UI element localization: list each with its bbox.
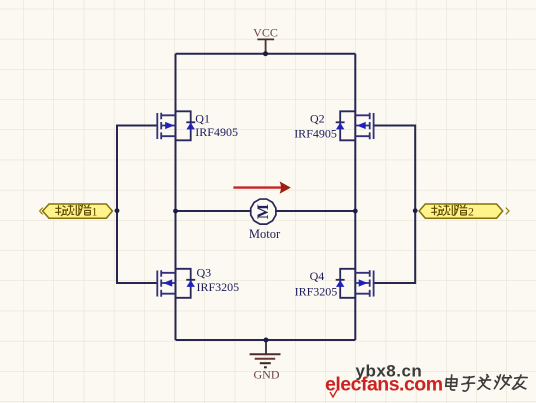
- svg-text:1: 1: [92, 204, 98, 218]
- svg-text:M: M: [255, 204, 272, 219]
- junction right port node: [413, 208, 418, 213]
- junction right motor node: [353, 209, 358, 214]
- watermark tick mark: [330, 390, 337, 397]
- current direction arrow: [233, 181, 290, 193]
- svg-text:2: 2: [468, 204, 474, 218]
- wire right gate net: [374, 126, 416, 284]
- svg-text:IRF4905: IRF4905: [195, 125, 238, 139]
- svg-text:IRF3205: IRF3205: [197, 280, 240, 294]
- svg-text:Q1: Q1: [195, 112, 210, 126]
- transistor Q2 P-MOSFET (mirrored): [336, 111, 374, 140]
- svg-text:Q4: Q4: [310, 269, 325, 283]
- svg-text:Q3: Q3: [197, 266, 212, 280]
- svg-text:Motor: Motor: [249, 227, 281, 241]
- svg-text:VCC: VCC: [253, 25, 278, 39]
- svg-text:elecfans.com: elecfans.com: [325, 374, 443, 396]
- watermark dian-zi-fa-shao-you (drawn strokes): [445, 375, 527, 392]
- wire left gate net: [117, 126, 158, 284]
- wire top rail VCC net: [176, 53, 356, 55]
- motor M: [251, 199, 276, 224]
- transistor Q4 N-MOSFET (mirrored): [336, 269, 374, 298]
- junction GND node: [264, 338, 269, 343]
- svg-text:IRF4905: IRF4905: [294, 127, 337, 141]
- junction VCC node: [263, 51, 268, 56]
- power port VCC: [253, 25, 278, 53]
- wire bottom rail GND net: [176, 339, 356, 341]
- svg-text:GND: GND: [254, 368, 280, 382]
- wire right branch (Q2 drain-source vertical): [354, 54, 356, 340]
- port control-1 (left, kong-zhi-duan-1): [40, 204, 113, 218]
- port control-2 (right, kong-zhi-duan-2): [419, 204, 509, 218]
- ground: [250, 340, 281, 382]
- wire middle rail motor net: [176, 210, 356, 212]
- svg-text:IRF3205: IRF3205: [295, 285, 338, 299]
- junction left motor node: [173, 209, 178, 214]
- svg-text:Q2: Q2: [310, 112, 325, 126]
- transistor Q3 N-MOSFET: [157, 269, 195, 298]
- transistor Q1 P-MOSFET: [157, 111, 195, 140]
- junction left port node: [115, 208, 120, 213]
- wire left branch (Q1 drain-source vertical): [175, 54, 177, 340]
